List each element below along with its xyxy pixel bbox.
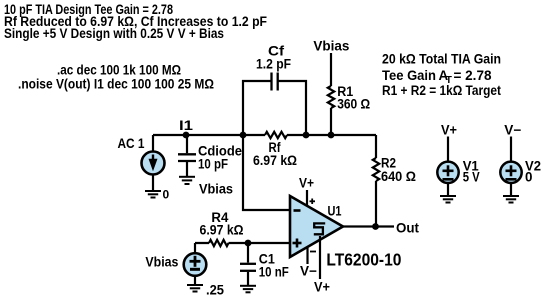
svg-text:1.2 pF: 1.2 pF (256, 57, 291, 72)
label Rf (269, 140, 281, 155)
wire R2 bottom (375, 181, 377, 227)
wire V1 top (447, 137, 449, 162)
label U1 (328, 204, 342, 219)
wire Cdiode stem (186, 135, 188, 153)
label Vbias (top) (313, 39, 349, 54)
svg-text:Out: Out (396, 221, 420, 236)
resistor Rf (265, 132, 287, 138)
current source I1 (AC 1) (142, 152, 165, 175)
label R4 (211, 210, 229, 225)
op-amp V- pin (306, 247, 308, 264)
ground under Vbias source (187, 285, 203, 292)
op-amp non-inverting input sign (293, 239, 302, 248)
wire V2 top (510, 137, 512, 162)
node I1 label (179, 118, 194, 133)
svg-text:= 2.78: = 2.78 (454, 68, 493, 83)
label Cf (268, 44, 285, 59)
label C1 value (259, 265, 289, 280)
voltage source Vbias (184, 253, 207, 276)
title text line 3 (4, 26, 224, 41)
svg-text:10 pF: 10 pF (198, 157, 228, 172)
note text right line 2 (382, 68, 492, 86)
note text right line 3 (382, 83, 501, 98)
wire feedback down to inverting input (243, 135, 290, 210)
op-amp V- pin minus sign (310, 251, 316, 253)
label Vbias (source) (145, 255, 178, 270)
label V1 (463, 159, 480, 174)
title text line 2 (4, 14, 267, 29)
svg-text:6.97 kΩ: 6.97 kΩ (253, 153, 297, 168)
svg-text:V+: V+ (441, 123, 457, 138)
op-amp V+ pin (306, 190, 308, 207)
svg-text:AC 1: AC 1 (118, 136, 145, 151)
svg-text:0: 0 (163, 188, 170, 202)
svg-text:10 nF: 10 nF (259, 265, 289, 280)
label R2 (381, 156, 396, 171)
svg-text:5 V: 5 V (463, 170, 480, 185)
junction dot Cf right (303, 132, 310, 139)
wire R1 to main (330, 108, 332, 135)
spice directive .ac (57, 63, 181, 78)
wire op-amp output (343, 225, 394, 227)
wire Vbias to R1 (330, 53, 332, 86)
svg-text:.ac dec 100 1k 100 MΩ: .ac dec 100 1k 100 MΩ (57, 63, 181, 78)
svg-text:V+: V+ (299, 176, 314, 191)
junction dot I1 (183, 132, 190, 139)
voltage source V1 (437, 162, 458, 183)
label R4 value (200, 223, 244, 238)
wire C1 stem (247, 243, 249, 263)
label V+ (V1 top) (441, 123, 457, 138)
svg-text:0: 0 (525, 170, 532, 185)
svg-text:Tee Gain: Tee Gain (382, 68, 436, 83)
label V- (V2 top) (504, 123, 521, 138)
label Rf value (253, 153, 297, 168)
wire V2 to ground (510, 183, 512, 195)
label 0 (AC1 value) (163, 188, 170, 202)
voltage source V2 (500, 162, 521, 183)
label R1 value (337, 97, 370, 112)
junction dot C1 (245, 240, 252, 247)
wire non-inverting input net (195, 242, 290, 244)
ground under V1 (440, 196, 456, 203)
title text line 1 (4, 2, 173, 17)
svg-text:.25: .25 (206, 283, 225, 298)
wire AC1 to ground (152, 174, 154, 190)
op-amp inverting input sign (294, 209, 301, 212)
svg-text:20 kΩ Total TIA Gain: 20 kΩ Total TIA Gain (382, 52, 501, 67)
resistor R2 (373, 158, 379, 181)
label V+ (shutdown tie) (314, 280, 330, 295)
label AC 1 (118, 136, 145, 151)
junction dot R1 (328, 132, 335, 139)
label Cdiode value (198, 157, 228, 172)
wire Vbias source to R4 (194, 243, 196, 253)
svg-text:V−: V− (300, 264, 317, 279)
ground under C1 (240, 286, 256, 293)
svg-text:Single +5 V Design with 0.25 V: Single +5 V Design with 0.25 V V + Bias (4, 26, 224, 41)
op-amp V+ pin plus sign (310, 199, 316, 205)
label Vbias (under Cdiode) (199, 182, 233, 197)
label C1 (259, 252, 276, 267)
resistor R4 (209, 240, 229, 246)
wire AC1 stem (152, 135, 154, 152)
ground under V2 (503, 196, 519, 203)
label V2 (525, 159, 541, 174)
label Cdiode (198, 144, 242, 159)
svg-text:640 Ω: 640 Ω (381, 169, 416, 184)
label .25 (Vbias value) (206, 283, 225, 298)
label V- (op-amp bottom) (300, 264, 317, 279)
wire V1 to ground (447, 183, 449, 195)
label V1 value (463, 170, 480, 185)
spice directive .noise (18, 77, 214, 92)
svg-text:Vbias: Vbias (145, 255, 178, 270)
junction dot feedback node (240, 132, 247, 139)
wire main horizontal net (153, 134, 376, 136)
label V+ (op-amp top) (299, 176, 314, 191)
op-amp shutdown 5-bar glyph (314, 223, 325, 234)
ground under AC1 (145, 191, 161, 198)
wire Vbias source to ground (194, 276, 196, 284)
op-amp U1 (290, 196, 343, 257)
capacitor Cf (272, 73, 278, 91)
junction dot output (372, 223, 379, 230)
svg-text:R1 + R2 = 1kΩ Target: R1 + R2 = 1kΩ Target (382, 83, 501, 98)
capacitor C1 (240, 264, 256, 285)
svg-text:.noise V(out) I1 dec 100 100 2: .noise V(out) I1 dec 100 100 25 MΩ (18, 77, 214, 92)
wire R2 top (375, 135, 377, 158)
svg-text:Vbias: Vbias (313, 39, 349, 54)
op-amp shutdown pin (319, 236, 321, 279)
wire Cf loop (243, 81, 306, 135)
svg-text:V+: V+ (314, 280, 330, 295)
resistor R1 (328, 86, 334, 108)
label R2 value (381, 169, 416, 184)
label LT6200-10 (326, 250, 401, 270)
svg-text:I1: I1 (179, 118, 194, 133)
capacitor Cdiode (178, 154, 196, 176)
svg-text:V−: V− (504, 123, 521, 138)
ground-flag under Cdiode (Vbias) (179, 177, 195, 184)
svg-text:Vbias: Vbias (199, 182, 233, 197)
label R1 (337, 84, 354, 99)
svg-text:U1: U1 (328, 204, 342, 219)
svg-text:360 Ω: 360 Ω (337, 97, 370, 112)
svg-text:6.97 kΩ: 6.97 kΩ (200, 223, 244, 238)
note text right line 1 (382, 52, 501, 67)
label V2 value (525, 170, 532, 185)
label Out (396, 221, 420, 236)
svg-text:LT6200-10: LT6200-10 (326, 250, 401, 270)
label Cf value (256, 57, 291, 72)
